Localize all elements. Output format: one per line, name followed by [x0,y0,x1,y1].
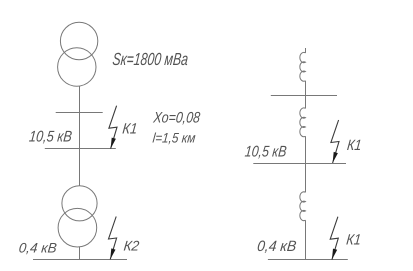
wire top stub right diagram [305,48,307,53]
svg-text:10,5 кВ: 10,5 кВ [244,144,287,161]
wire bus to L2 [305,96,307,109]
wire L2 to 10.5kV bus [305,136,307,163]
svg-text:К1: К1 [346,137,362,154]
svg-text:Xо=0,08: Xо=0,08 [152,110,202,127]
inductor L3 [300,192,306,221]
busbar upper right [271,95,337,97]
busbar 0.4kV right [268,259,348,261]
wire L1 to upper bus [305,81,307,96]
wire 10.5kV bus to L3 [305,164,307,193]
short-circuit bolt K1 right bottom [330,217,338,260]
wire L3 to 0.4kV bus [305,220,307,259]
svg-text:К1: К1 [122,121,139,138]
short-circuit bolt K1 right middle [331,120,339,163]
transformer T1 (two overlapping circles) [58,186,97,247]
busbar lower 10.5kV [45,148,116,150]
svg-text:0,4 кВ: 0,4 кВ [18,240,57,256]
wire bus to transformer T1 [79,149,81,186]
wire transformer to 0.4kV bus [79,247,81,260]
busbar 0.4kV left [33,259,127,261]
svg-text:Sк=1800 мВа: Sк=1800 мВа [112,49,190,69]
svg-text:К1: К1 [345,231,361,248]
svg-text:0,4 кВ: 0,4 кВ [256,238,297,255]
inductor L2 [300,108,306,137]
inductor L1 system reactance [300,52,306,81]
busbar upper 10.5kV [56,112,103,114]
svg-text:К2: К2 [123,237,140,253]
short-circuit bolt K2 left [109,217,117,260]
wire source to 10.5kV bus [79,86,81,113]
svg-text:l=1,5 км: l=1,5 км [152,129,197,145]
busbar 10.5kV right [253,163,346,165]
svg-text:10,5 кВ: 10,5 кВ [28,129,73,146]
short-circuit bolt K1 left [109,106,117,149]
wire between busbars [79,113,81,149]
source system G1 (two overlapping circles) [58,22,98,86]
